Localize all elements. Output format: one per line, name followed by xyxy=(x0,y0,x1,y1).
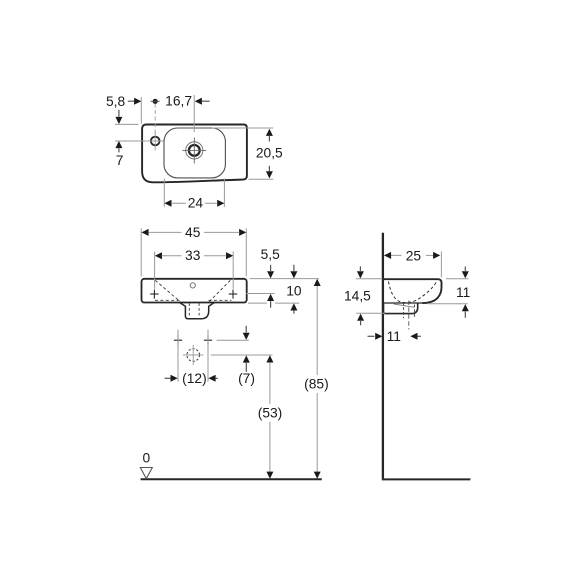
dim 25 line xyxy=(385,254,434,256)
dashed bowl bottom xyxy=(155,299,232,301)
dim 11 right top ext xyxy=(446,278,469,280)
svg-text:16,7: 16,7 xyxy=(165,94,192,109)
svg-text:(85): (85) xyxy=(304,377,329,392)
svg-text:33: 33 xyxy=(185,248,201,263)
dim 45 ext lines xyxy=(141,228,246,276)
dim (85) line xyxy=(316,285,318,472)
svg-text:(12): (12) xyxy=(182,371,207,386)
svg-text:0: 0 xyxy=(142,451,150,466)
dim 10 down arrow xyxy=(293,265,295,271)
mounting hole left xyxy=(150,293,158,295)
drain dashed lines side xyxy=(404,303,415,319)
dim (53) line xyxy=(269,362,271,472)
level C bottom ext right xyxy=(248,302,299,304)
dim (7) up arrow xyxy=(243,355,250,362)
tap hole left xyxy=(151,137,160,146)
dim 16,7 dot xyxy=(153,99,158,104)
ext line faucet center xyxy=(193,95,195,132)
dashed bowl left slant xyxy=(155,280,180,301)
dim 11 bottom right arrow xyxy=(410,333,417,340)
dim 33 ext lines xyxy=(155,252,234,289)
dim (85) down arrow xyxy=(314,472,321,479)
drain inner dashes xyxy=(189,303,199,318)
basin outline top view xyxy=(142,125,247,183)
dim 11 bottom left arrow xyxy=(368,335,375,337)
datum triangle xyxy=(140,468,152,479)
faucet hole outer ring xyxy=(186,142,203,159)
drain tailpiece xyxy=(180,303,215,319)
ext line basin left edge xyxy=(140,97,142,124)
svg-text:(53): (53) xyxy=(258,406,283,421)
dim 14,5 down arrow xyxy=(359,266,361,271)
svg-text:24: 24 xyxy=(188,196,204,211)
inner bowl top view xyxy=(164,128,225,178)
ext lines fixing holes xyxy=(178,330,208,382)
svg-text:45: 45 xyxy=(185,225,201,240)
dim 33 arrows xyxy=(155,252,162,259)
dim (53) down arrow xyxy=(266,472,273,479)
floor line left xyxy=(141,478,322,480)
dim 7 upper arrow xyxy=(118,110,120,117)
ext line rim top right xyxy=(212,127,273,129)
tap hole crosshair xyxy=(147,132,164,150)
svg-text:5,8: 5,8 xyxy=(106,94,126,109)
wall line xyxy=(382,233,384,479)
fixing hole left xyxy=(174,339,182,341)
svg-text:14,5: 14,5 xyxy=(344,289,371,304)
dim 5,8 arrow xyxy=(128,100,135,102)
dim 14,5 bottom ext xyxy=(356,312,385,314)
dim 11 right bottom ext xyxy=(428,303,468,305)
level A top edge ext right xyxy=(250,278,319,280)
svg-text:10: 10 xyxy=(286,283,302,298)
svg-text:11: 11 xyxy=(456,285,470,300)
svg-text:(7): (7) xyxy=(238,371,255,386)
svg-text:5,5: 5,5 xyxy=(261,247,281,262)
level B hole ext right xyxy=(246,293,275,295)
drain center line side xyxy=(408,301,410,330)
drain hole dashed circle xyxy=(187,349,200,362)
tail inner slant xyxy=(394,304,415,307)
svg-text:11: 11 xyxy=(387,329,401,344)
svg-text:25: 25 xyxy=(406,248,422,263)
level D fixing ext right xyxy=(217,339,249,341)
svg-text:7: 7 xyxy=(116,153,124,168)
dim 5,5 down arrow xyxy=(270,265,272,271)
level E drain ext right xyxy=(211,354,273,356)
svg-text:20,5: 20,5 xyxy=(256,145,283,160)
dim 25 left arrow xyxy=(384,252,391,259)
dim (7) down arrow xyxy=(245,326,247,333)
mounting hole right xyxy=(229,293,237,295)
basin side profile top xyxy=(383,279,442,303)
fixing hole right xyxy=(204,339,212,341)
dashed bowl right slant xyxy=(209,280,230,301)
dim (12) right arrow xyxy=(208,375,215,382)
dim (85) up arrow xyxy=(314,279,321,286)
dim 10 up arrow xyxy=(290,303,297,310)
floor line right xyxy=(382,478,471,480)
faucet hole xyxy=(189,145,200,156)
dim 45 arrows xyxy=(141,229,148,236)
bowl dashed arc side xyxy=(389,281,437,302)
dim 24 ext lines xyxy=(164,179,224,207)
dim 14,5 up arrow xyxy=(357,314,364,321)
ext tap hole center left xyxy=(115,140,147,142)
dim 14,5 top ext xyxy=(356,278,383,280)
dim 16,7 arrow xyxy=(195,98,202,105)
dim (53) up arrow xyxy=(266,355,273,362)
tail block side xyxy=(384,303,418,314)
dim 20,5 bottom arrow xyxy=(266,171,273,178)
faucet crosshair xyxy=(182,138,206,164)
dim 11 right up arrow xyxy=(462,304,469,311)
dim 24 arrows xyxy=(164,200,171,207)
dim 20,5 top arrow xyxy=(266,129,273,136)
dim (12) left arrow xyxy=(165,377,171,379)
dim 7 lower arrow xyxy=(115,141,122,148)
drain hole crosshair xyxy=(183,345,203,365)
dim 25 ext line xyxy=(440,252,442,278)
dim 25 right arrow xyxy=(433,252,440,259)
overflow hole xyxy=(190,283,195,288)
basin front body xyxy=(142,279,247,303)
ext top edge left xyxy=(115,123,139,125)
dim 11 right down arrow xyxy=(464,267,466,272)
dim 5,5 up arrow xyxy=(267,294,274,301)
ledge line xyxy=(383,302,423,304)
ext line tap hole center xyxy=(154,104,156,134)
ext line bottom right xyxy=(249,178,274,180)
